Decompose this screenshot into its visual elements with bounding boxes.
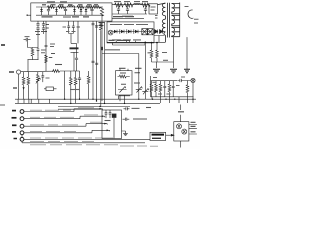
wire (27, 85, 29, 99)
wire ticks (116, 41, 135, 43)
bus L3 (58, 106, 130, 108)
wire tap (91, 7, 93, 9)
label (0, 104, 5, 106)
resistor R16 (141, 3, 150, 7)
wire (125, 131, 127, 134)
wire (69, 21, 78, 56)
label (12, 110, 16, 112)
label (162, 53, 168, 61)
label (185, 7, 199, 24)
regulator box U1 (107, 22, 154, 43)
label (133, 118, 147, 120)
label (105, 50, 150, 53)
wire (70, 86, 72, 104)
wire tap (56, 7, 58, 9)
wire (152, 37, 174, 68)
wire pair main vertical bus (101, 15, 103, 101)
wire (192, 83, 194, 103)
wire tap (80, 7, 82, 9)
resistor R9 (37, 72, 39, 75)
crystal Y1 (46, 87, 54, 91)
capacitor C6 (42, 28, 45, 29)
wire (100, 30, 102, 106)
label (122, 15, 133, 17)
wire (48, 11, 50, 15)
label (47, 1, 67, 3)
wire (37, 29, 39, 37)
label (41, 44, 55, 53)
wire (56, 11, 58, 15)
resistor R10 horizontal on input line (53, 70, 60, 73)
wire vertical from filter to bus (92, 21, 94, 99)
terminal J1 input circle (17, 70, 21, 74)
diode D1 (40, 9, 43, 11)
wire stub left (28, 14, 31, 16)
capacitor C28 (45, 45, 48, 46)
ground (153, 69, 160, 72)
potentiometer VR3 (144, 42, 146, 99)
ground (184, 69, 190, 72)
wire (127, 10, 129, 14)
label (134, 82, 140, 84)
wire (27, 71, 29, 72)
transistor Q3 (108, 30, 113, 35)
label (13, 87, 17, 89)
wire (24, 124, 107, 127)
wire bars (120, 29, 134, 33)
title block (150, 132, 166, 140)
diode D10 (149, 31, 164, 33)
transformer T1 secondary (172, 4, 175, 14)
wire (43, 25, 45, 28)
wire top link to rectifier section (112, 4, 149, 6)
connector P4 (20, 131, 24, 135)
label (178, 111, 184, 113)
capacitor C15 plates (95, 63, 98, 64)
wire (187, 80, 189, 82)
transformer T1 primary (158, 3, 180, 43)
top AC filter box (31, 3, 112, 21)
resistor R15 (124, 3, 133, 7)
wire (24, 109, 103, 112)
capacitor C3 below box (37, 21, 39, 23)
wire (112, 13, 147, 15)
capacitor C9 (41, 72, 44, 82)
resistor R24 (169, 81, 171, 84)
capacitor C18 (126, 9, 129, 10)
wire (32, 56, 34, 59)
wire (37, 83, 39, 100)
capacitor C17 (117, 9, 120, 10)
terminal J2 (191, 78, 195, 82)
diode D2 (55, 9, 58, 11)
wire bus below regulator (107, 41, 165, 43)
resistor R21 (151, 81, 153, 84)
capacitor C10 (78, 71, 81, 99)
capacitor C5 (43, 21, 45, 23)
connector P5 (20, 137, 24, 141)
label (12, 117, 17, 119)
capacitor C11 (75, 56, 78, 71)
label (46, 77, 50, 79)
resistor R13 (88, 71, 90, 76)
connector P3 (20, 124, 24, 128)
resistor R3 (77, 6, 84, 9)
wire arrow (166, 134, 174, 136)
wire tap (65, 7, 67, 9)
wire tap (118, 5, 120, 9)
wire (85, 11, 87, 15)
label (112, 39, 141, 41)
diode D12 (80, 9, 83, 11)
potentiometer VR2 (138, 54, 140, 100)
wire (75, 86, 77, 104)
label (70, 89, 80, 91)
wire corner (119, 96, 130, 99)
wire (44, 88, 57, 90)
label (42, 16, 90, 18)
wire top rail (151, 76, 178, 97)
wire (96, 21, 98, 101)
capacitor C12 plates (92, 24, 95, 25)
label (132, 107, 140, 109)
wire ticks between buses (18, 99, 49, 103)
resistor R26 (45, 55, 48, 63)
resistor R18 (119, 75, 126, 78)
wire vertical chain (45, 21, 47, 71)
wire (37, 25, 39, 28)
label (99, 23, 105, 26)
label (181, 76, 185, 78)
wire (91, 11, 93, 16)
wire (28, 56, 39, 71)
wire tap (74, 7, 76, 9)
resistor R11 (70, 71, 72, 78)
label (14, 138, 18, 140)
resistor R25 (187, 81, 189, 85)
resistor R7 (23, 72, 25, 77)
label (109, 39, 131, 41)
wire (88, 84, 90, 99)
label (110, 24, 148, 26)
inductor hook (188, 10, 193, 18)
zener D5 (72, 21, 75, 33)
label (12, 124, 17, 126)
capacitor C4 (36, 28, 39, 29)
wire (53, 71, 80, 72)
label (12, 131, 16, 133)
wire right section below transformer (152, 43, 158, 50)
label (105, 120, 111, 122)
wire (113, 31, 153, 33)
diode D6 (114, 30, 117, 33)
inductor L2 (134, 3, 141, 4)
label (25, 36, 30, 38)
capacitor C7 electrolytic (24, 39, 27, 41)
diode D9 (135, 30, 138, 33)
bus L1 (15, 98, 196, 100)
transistor Q2 (182, 129, 187, 134)
capacitor C22 (105, 110, 108, 118)
wire (65, 11, 67, 16)
wire tap (48, 7, 50, 9)
label (146, 107, 151, 109)
wire (102, 42, 145, 53)
label (63, 27, 81, 32)
wire (96, 99, 98, 101)
wire (18, 74, 20, 99)
wire tap (85, 7, 87, 9)
junction box bottom (102, 110, 122, 139)
resistor R8 (27, 72, 29, 77)
wire (80, 11, 82, 15)
capacitor C25 (123, 118, 130, 121)
inductor L1 (68, 6, 75, 7)
label (153, 81, 157, 83)
capacitor C1 (64, 9, 67, 10)
label (153, 78, 180, 95)
potentiometer VR1 (118, 87, 127, 93)
capacitor C13 plates (95, 26, 98, 27)
wire bottom (22, 142, 145, 144)
shield box (149, 4, 158, 14)
trimmer box (116, 71, 133, 95)
label (151, 7, 156, 10)
diode D4 (85, 9, 88, 11)
capacitor C20 (163, 81, 166, 97)
resistor R22 (155, 81, 157, 84)
resistor R1 (48, 6, 55, 9)
node dark bar (70, 47, 79, 49)
wire (120, 69, 128, 104)
wire (43, 29, 45, 34)
capacitor plate (71, 51, 79, 53)
diode D8 (128, 30, 131, 33)
node dark blob (112, 114, 117, 118)
resistor R19 (150, 50, 153, 58)
label harness text (30, 108, 158, 147)
wire (154, 36, 164, 43)
node dots (145, 42, 158, 44)
label (35, 25, 49, 35)
wire (180, 105, 182, 148)
label (27, 14, 29, 16)
connector P1 (20, 110, 24, 114)
wire top rail (36, 6, 103, 8)
capacitor C14 plates (92, 61, 95, 62)
capacitor C16 (67, 21, 70, 33)
resistor R23 (160, 81, 162, 84)
wire (24, 130, 110, 133)
transistor Q1 (177, 124, 182, 129)
transistor X pair (142, 29, 147, 35)
capacitor C26 (47, 10, 50, 11)
label HY1186 (152, 134, 165, 136)
node dots (64, 99, 194, 108)
diode D7 (121, 30, 124, 33)
wire (21, 141, 23, 143)
resistor R2 (58, 6, 65, 9)
resistor R6 (32, 47, 34, 50)
resistor R27 (100, 21, 102, 23)
capacitor C23 (109, 110, 112, 118)
label (120, 73, 140, 84)
wire (114, 118, 126, 139)
capacitor C27 (172, 81, 175, 97)
wire above (112, 18, 144, 20)
wire tap (41, 7, 43, 9)
wire (64, 71, 66, 99)
wire link (21, 135, 23, 138)
label (191, 122, 196, 132)
wire (158, 3, 166, 42)
resistor R14 (115, 3, 124, 7)
wire (23, 85, 25, 99)
label (119, 67, 142, 69)
capacitor C21 (178, 79, 191, 82)
wire (28, 37, 39, 48)
diode D3 (73, 9, 76, 11)
diode D11 (160, 30, 163, 34)
label (155, 16, 158, 19)
wire taps (172, 4, 180, 37)
capacitor C24 (124, 107, 130, 110)
label (55, 64, 62, 66)
capacitor C8 (37, 48, 40, 57)
ground (123, 134, 128, 136)
wire tap (145, 5, 147, 9)
wire (189, 125, 197, 135)
wire (112, 44, 145, 46)
wire (41, 11, 43, 15)
label (42, 4, 98, 6)
resistor R20 (156, 50, 159, 58)
wire (74, 11, 76, 15)
label (1, 44, 5, 46)
resistor R5 (93, 6, 100, 9)
wire lower rail (36, 14, 103, 16)
label (63, 16, 71, 18)
label (113, 16, 134, 18)
label (114, 1, 148, 3)
transformer core (167, 3, 169, 38)
wire (118, 10, 120, 14)
arrow (23, 87, 25, 89)
wire (24, 116, 105, 119)
output block Q1 Q2 (174, 122, 189, 141)
ground (170, 69, 177, 72)
capacitor C19 (144, 9, 147, 10)
resistor R4 (86, 6, 93, 9)
wire (145, 10, 147, 14)
wire (104, 22, 106, 104)
node blob (101, 47, 103, 50)
wire bottom rail (151, 97, 194, 103)
wire tap (127, 5, 129, 9)
wire (179, 3, 181, 37)
connector P2 (20, 117, 24, 121)
label (49, 54, 55, 58)
wire (24, 138, 150, 140)
inductor L3 vertical in box (100, 7, 103, 16)
bus L4 (58, 108, 102, 110)
wire (186, 37, 188, 69)
wire (118, 76, 130, 78)
resistor R12 (75, 71, 77, 78)
bus L2 (15, 102, 160, 104)
wire input line (21, 70, 53, 72)
label (9, 71, 14, 73)
capacitor C2 (90, 9, 93, 10)
